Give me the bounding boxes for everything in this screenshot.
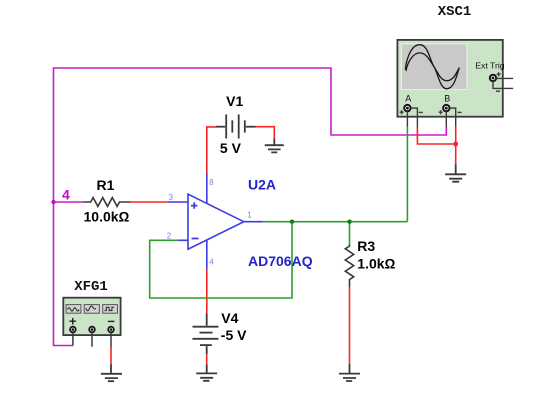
svg-text:R1: R1	[97, 177, 115, 193]
svg-text:1.0kΩ: 1.0kΩ	[357, 255, 395, 271]
svg-text:U2A: U2A	[248, 176, 276, 192]
svg-text:8: 8	[209, 178, 214, 187]
svg-text:R3: R3	[357, 238, 375, 254]
svg-text:5 V: 5 V	[220, 140, 242, 156]
svg-text:V1: V1	[226, 93, 243, 109]
svg-text:AD706AQ: AD706AQ	[248, 253, 313, 269]
svg-text:2: 2	[167, 231, 172, 240]
svg-text:1: 1	[247, 211, 252, 220]
svg-text:4: 4	[209, 258, 214, 267]
svg-text:B: B	[444, 93, 450, 103]
svg-text:A: A	[405, 93, 411, 103]
svg-text:-5 V: -5 V	[221, 327, 247, 343]
svg-text:V4: V4	[221, 310, 238, 326]
svg-text:3: 3	[169, 193, 174, 202]
svg-text:Ext Trig: Ext Trig	[475, 60, 505, 70]
svg-text:XSC1: XSC1	[438, 4, 472, 20]
svg-text:4: 4	[62, 186, 70, 202]
svg-text:XFG1: XFG1	[74, 279, 108, 295]
svg-text:10.0kΩ: 10.0kΩ	[84, 209, 130, 225]
